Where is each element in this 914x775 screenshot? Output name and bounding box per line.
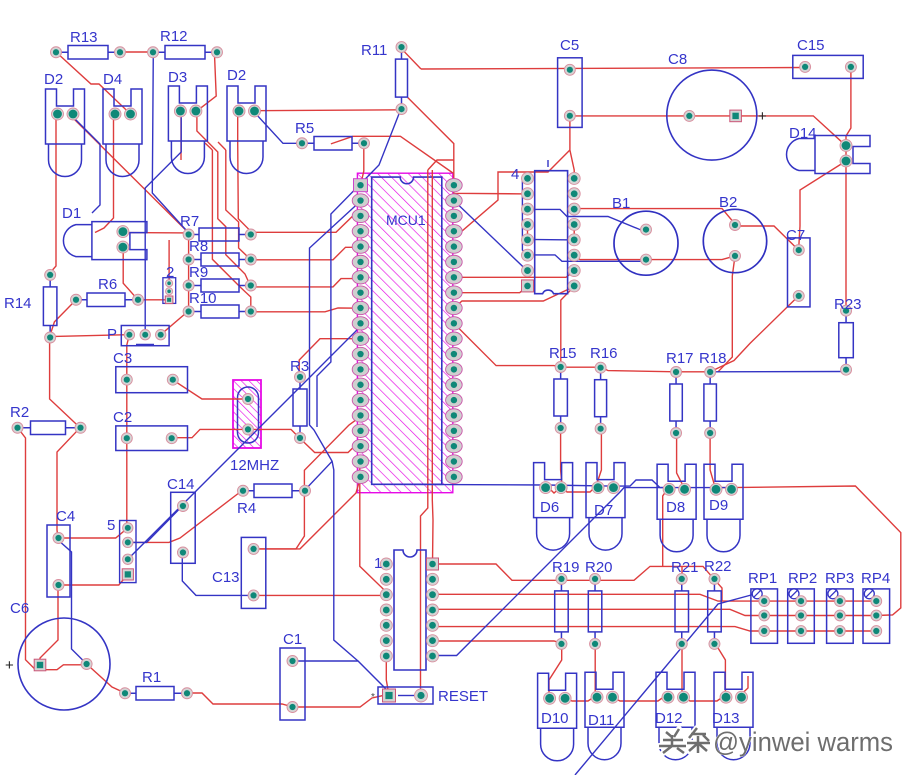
capacitor C6 <box>5 600 110 710</box>
wire <box>168 240 170 283</box>
wire <box>561 428 562 485</box>
wire <box>87 664 125 693</box>
wire <box>197 52 216 111</box>
svg-text:D14: D14 <box>789 125 817 142</box>
wire <box>386 656 389 696</box>
wire <box>253 477 360 549</box>
wire <box>799 161 846 250</box>
wire <box>715 643 725 695</box>
wire <box>71 115 100 213</box>
svg-text:D3: D3 <box>168 69 187 86</box>
wire <box>611 695 667 701</box>
wire <box>299 339 360 377</box>
wire <box>123 232 188 234</box>
svg-text:R2: R2 <box>10 404 29 421</box>
wire <box>547 486 562 493</box>
svg-text:D9: D9 <box>709 497 728 514</box>
wire <box>205 143 212 150</box>
wire <box>238 111 251 234</box>
wire <box>528 238 575 241</box>
wire <box>522 178 527 255</box>
svg-text:P: P <box>107 326 117 343</box>
svg-text:R15: R15 <box>549 345 577 362</box>
wire <box>310 201 361 661</box>
wire <box>710 371 846 373</box>
wire <box>421 170 428 696</box>
svg-text:D4: D4 <box>103 71 122 88</box>
capacitor C15 <box>793 37 863 78</box>
wire <box>431 170 434 564</box>
resistor R17 <box>666 350 694 439</box>
svg-text:R18: R18 <box>699 350 727 367</box>
wire <box>454 201 528 271</box>
wire <box>681 566 683 580</box>
svg-text:D2: D2 <box>227 67 246 84</box>
wire <box>145 113 181 335</box>
wire <box>361 143 364 185</box>
connector J5 <box>107 517 136 583</box>
wire <box>253 491 304 549</box>
capacitor C1 <box>280 631 305 720</box>
wire <box>18 428 84 670</box>
svg-text:4: 4 <box>511 166 519 183</box>
svg-text:R4: R4 <box>237 500 256 517</box>
wire <box>677 433 684 488</box>
svg-text:RP3: RP3 <box>825 570 854 587</box>
MCU U1 body <box>357 173 452 493</box>
capacitor C2 <box>113 409 188 451</box>
svg-text:+: + <box>5 657 14 674</box>
svg-text:R21: R21 <box>671 559 699 576</box>
resistor R1 <box>120 669 193 700</box>
wire <box>732 256 735 340</box>
wire <box>715 486 901 616</box>
svg-text:1: 1 <box>374 555 382 572</box>
wire <box>372 480 731 488</box>
svg-text:RP2: RP2 <box>788 570 817 587</box>
svg-text:D11: D11 <box>588 712 614 729</box>
wire <box>251 216 361 232</box>
svg-text:B1: B1 <box>612 195 630 212</box>
svg-text:R23: R23 <box>834 296 862 313</box>
wire <box>58 540 87 665</box>
wire <box>360 455 387 595</box>
switch RESET <box>371 687 488 705</box>
wire <box>575 594 757 775</box>
LED D14 <box>787 125 870 174</box>
wire <box>299 438 360 453</box>
MCU U1 pins <box>352 179 462 484</box>
wire <box>454 287 574 309</box>
wire <box>715 580 722 601</box>
resistor R13 <box>51 29 126 59</box>
capacitor C3 <box>113 350 188 393</box>
wire <box>173 380 248 399</box>
trimmer RP4 <box>861 570 890 643</box>
svg-text:R8: R8 <box>189 238 208 255</box>
svg-text:5: 5 <box>107 517 115 534</box>
wire <box>253 109 401 112</box>
wire <box>50 337 81 428</box>
resistor R3 <box>290 358 309 444</box>
resistor R12 <box>148 28 223 59</box>
wire <box>574 209 735 224</box>
LED D2 <box>227 67 266 174</box>
wire <box>764 600 876 602</box>
wire <box>95 115 114 233</box>
svg-text:C2: C2 <box>113 409 132 426</box>
svg-text:12MHZ: 12MHZ <box>230 457 279 474</box>
resistor R5 <box>295 120 370 150</box>
LED D3 <box>168 69 207 174</box>
wire <box>846 67 851 146</box>
wire <box>182 551 253 596</box>
wire <box>123 248 138 299</box>
wire <box>735 225 799 250</box>
wire <box>710 296 799 372</box>
wire <box>401 48 421 69</box>
connector J2 <box>163 264 176 304</box>
battery B2 <box>703 194 766 273</box>
resistor R20 <box>585 559 613 649</box>
svg-text:C4: C4 <box>56 508 75 525</box>
resistor R11 <box>361 42 408 115</box>
resistor R22 <box>704 558 732 649</box>
wire <box>71 116 189 233</box>
wire <box>56 52 129 115</box>
svg-text:R10: R10 <box>189 290 217 307</box>
wire <box>573 225 575 240</box>
wire <box>718 340 732 372</box>
svg-text:C13: C13 <box>212 569 240 586</box>
LED D6 <box>534 463 573 550</box>
svg-text:C7: C7 <box>786 227 805 244</box>
svg-text:C3: C3 <box>113 350 132 367</box>
svg-text:@yinwei warms: @yinwei warms <box>713 727 893 757</box>
wire <box>50 115 56 273</box>
wire <box>433 488 669 656</box>
LED D9 <box>704 464 743 552</box>
connector P <box>107 326 169 346</box>
wire <box>845 146 847 311</box>
wire <box>710 433 715 488</box>
resistor R2 <box>10 404 86 435</box>
svg-text:C8: C8 <box>668 51 687 68</box>
wire <box>433 641 562 643</box>
resistor R23 <box>834 296 862 375</box>
wire <box>570 115 689 117</box>
svg-text:D7: D7 <box>594 502 613 519</box>
wire <box>421 68 805 70</box>
wire <box>251 247 361 259</box>
svg-text:D12: D12 <box>655 710 683 727</box>
trimmer RP2 <box>788 570 817 643</box>
wire <box>118 51 154 53</box>
svg-text:R19: R19 <box>552 559 580 576</box>
resistor R10 <box>183 290 256 318</box>
wire <box>564 696 595 701</box>
trimmer RP1 <box>748 570 778 643</box>
wire <box>50 300 77 337</box>
wire <box>663 488 669 567</box>
wire <box>188 233 190 312</box>
resistor R18 <box>699 350 727 439</box>
wire <box>574 255 735 259</box>
wire <box>561 287 574 366</box>
wire <box>304 417 360 491</box>
svg-text:RESET: RESET <box>438 688 488 705</box>
resistor R16 <box>590 345 618 434</box>
wire <box>408 98 528 194</box>
wire <box>562 486 596 492</box>
wire <box>454 323 710 371</box>
LED D4 <box>103 71 142 177</box>
svg-text:D8: D8 <box>666 499 685 516</box>
wire <box>253 111 302 144</box>
watermark <box>659 727 893 757</box>
svg-text:R6: R6 <box>98 276 117 293</box>
svg-text:R20: R20 <box>585 559 613 576</box>
svg-text:R13: R13 <box>70 29 98 46</box>
wire <box>547 160 549 167</box>
wire <box>58 528 128 538</box>
wire <box>317 110 401 427</box>
svg-text:D6: D6 <box>540 499 559 516</box>
wire <box>128 323 361 559</box>
wire <box>433 564 716 580</box>
wire <box>251 279 361 287</box>
wire <box>433 609 877 615</box>
IC U2 (DIP-14) <box>374 550 439 670</box>
svg-text:R16: R16 <box>590 345 618 362</box>
resistor R6 <box>71 276 144 307</box>
wire <box>433 627 877 631</box>
svg-text:D1: D1 <box>62 205 81 222</box>
svg-text:2: 2 <box>166 264 174 281</box>
resistor R15 <box>549 345 577 434</box>
LED D8 <box>657 464 696 552</box>
LED D1 <box>62 205 147 260</box>
svg-text:MCU1: MCU1 <box>386 212 426 228</box>
svg-text:R12: R12 <box>160 28 188 45</box>
capacitor C4 <box>47 508 75 597</box>
wire <box>454 286 528 293</box>
wire <box>57 428 80 538</box>
capacitor C7 <box>786 227 810 307</box>
wire <box>528 255 647 261</box>
svg-text:C15: C15 <box>797 37 825 54</box>
LED D11 <box>585 672 624 760</box>
svg-text:R9: R9 <box>189 264 208 281</box>
resistor R19 <box>552 559 580 649</box>
resistor R21 <box>671 559 699 649</box>
wire <box>138 299 169 301</box>
LED D2 <box>44 71 85 177</box>
wire <box>180 113 182 160</box>
svg-text:C6: C6 <box>10 600 29 617</box>
resistor R8 <box>183 238 256 266</box>
resistor R4 <box>237 484 311 517</box>
capacitor C5 <box>558 37 583 127</box>
connector J4 <box>511 166 580 294</box>
svg-text:R3: R3 <box>290 358 309 375</box>
wire <box>128 491 242 543</box>
wire <box>428 160 454 170</box>
wire <box>218 142 226 150</box>
wire <box>152 52 188 233</box>
wire <box>304 461 332 490</box>
svg-text:C1: C1 <box>283 631 302 648</box>
svg-text:R14: R14 <box>4 295 32 312</box>
wire <box>433 594 765 601</box>
wire <box>454 150 570 231</box>
wire <box>596 429 601 486</box>
resistor R9 <box>183 264 256 292</box>
capacitor C13 <box>212 537 266 608</box>
wire <box>212 150 250 312</box>
capacitor C14 <box>167 476 195 563</box>
svg-text:D13: D13 <box>712 710 740 727</box>
wire <box>128 506 183 542</box>
svg-text:C5: C5 <box>560 37 579 54</box>
svg-text:R22: R22 <box>704 558 732 575</box>
wire <box>197 111 251 287</box>
LED D10 <box>538 673 577 761</box>
svg-text:RP4: RP4 <box>861 570 890 587</box>
wire <box>251 308 361 312</box>
wire <box>331 136 453 173</box>
wire <box>689 116 846 146</box>
resistor R14 <box>4 269 57 343</box>
wire <box>682 695 725 701</box>
wire <box>594 643 596 696</box>
wire <box>50 335 130 337</box>
wire <box>172 429 300 437</box>
wire <box>454 271 574 277</box>
wire <box>253 594 386 596</box>
svg-text:C14: C14 <box>167 476 195 493</box>
wire <box>527 225 529 240</box>
wire <box>549 643 562 697</box>
wire <box>570 116 574 178</box>
wire <box>226 150 251 260</box>
wire <box>528 209 647 229</box>
wire <box>58 574 128 585</box>
wire <box>845 371 847 373</box>
trimmer RP3 <box>825 570 854 643</box>
crystal Y1 12MHZ <box>233 380 261 448</box>
svg-text:RP1: RP1 <box>748 570 777 587</box>
LED D7 <box>586 463 625 550</box>
battery B1 <box>612 195 678 275</box>
svg-text:R11: R11 <box>361 42 387 59</box>
svg-text:R17: R17 <box>666 350 694 367</box>
wire <box>187 693 293 707</box>
LED D13 <box>712 672 753 760</box>
svg-text:R1: R1 <box>142 669 161 686</box>
svg-text:+: + <box>758 108 767 125</box>
wire <box>40 585 58 665</box>
svg-text:*: * <box>371 692 375 703</box>
capacitor C8 <box>667 51 767 160</box>
wire <box>161 311 189 335</box>
svg-text:D2: D2 <box>44 71 63 88</box>
svg-text:D10: D10 <box>541 710 569 727</box>
LED D12 <box>655 672 695 760</box>
svg-text:R7: R7 <box>180 213 199 230</box>
wire <box>293 661 389 696</box>
wire <box>293 696 389 708</box>
svg-text:B2: B2 <box>719 194 737 211</box>
svg-text:R5: R5 <box>295 120 314 137</box>
wire <box>126 380 128 528</box>
resistor R7 <box>180 213 256 241</box>
wire <box>681 643 683 695</box>
crystal pads <box>243 394 254 435</box>
wire <box>127 335 130 380</box>
wire <box>741 676 749 695</box>
